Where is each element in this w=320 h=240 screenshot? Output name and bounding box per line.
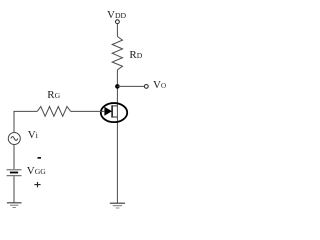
wire drain through transistor to ground (116, 102, 118, 203)
svg-text:Vi: Vi (28, 129, 39, 141)
source Vi (8, 133, 20, 145)
transistor Q1 (101, 103, 127, 122)
ground left (7, 203, 22, 208)
battery minus sign (38, 157, 42, 159)
junction drain node (115, 84, 120, 89)
terminal Vo (144, 85, 148, 89)
wire VDD to RD (116, 24, 118, 37)
resistor RG (37, 107, 70, 117)
wire node to Vo (117, 85, 144, 87)
svg-text:RG: RG (47, 89, 60, 101)
resistor RD (112, 37, 122, 70)
wire Vi to VGG (13, 145, 15, 169)
battery VGG (7, 170, 22, 176)
wire RD to drain node (116, 70, 118, 103)
ground at transistor source (110, 203, 125, 208)
wire gate (71, 110, 105, 112)
svg-text:VGG: VGG (27, 165, 47, 177)
wire RG to corner (14, 110, 37, 112)
terminal VDD (116, 20, 120, 24)
battery plus sign (34, 182, 40, 187)
svg-text:RD: RD (129, 49, 142, 61)
wire corner down to Vi (13, 111, 15, 132)
svg-text:VDD: VDD (107, 9, 127, 21)
wire VGG to ground (13, 176, 15, 203)
